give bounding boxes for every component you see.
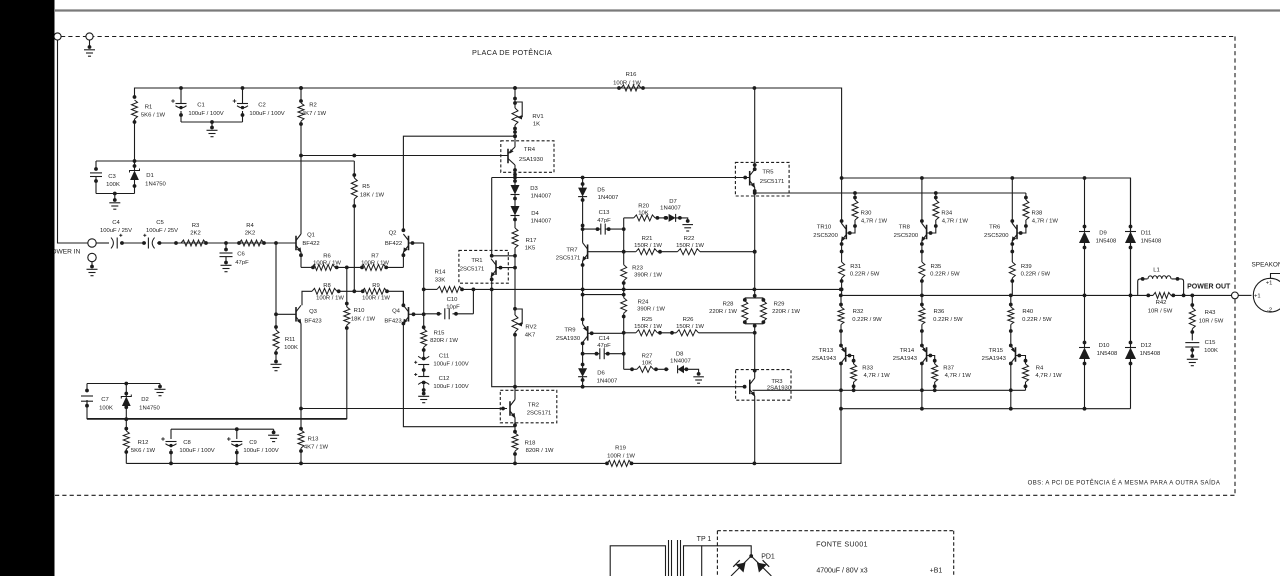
svg-text:R7: R7 — [371, 254, 379, 260]
svg-text:220R / 1W: 220R / 1W — [772, 309, 800, 315]
resistor R17 — [512, 228, 536, 256]
svg-text:4K7: 4K7 — [525, 333, 535, 339]
svg-text:C9: C9 — [249, 440, 257, 446]
svg-text:100K: 100K — [284, 345, 298, 351]
svg-text:2K2: 2K2 — [245, 230, 255, 236]
resistor R18 — [512, 433, 554, 463]
svg-text:47pF: 47pF — [597, 343, 611, 349]
svg-text:2SC5200: 2SC5200 — [984, 233, 1009, 239]
svg-text:1N5408: 1N5408 — [1140, 351, 1161, 357]
svg-text:R11: R11 — [285, 337, 295, 343]
trimpot RV1 — [512, 86, 544, 136]
wire R13 node to TR2 base — [301, 407, 507, 411]
svg-text:R12: R12 — [138, 440, 149, 446]
svg-text:2K2: 2K2 — [190, 230, 200, 236]
svg-text:100R / 1W: 100R / 1W — [316, 296, 344, 302]
svg-text:R34: R34 — [941, 211, 953, 217]
svg-text:2SA1943: 2SA1943 — [812, 356, 837, 362]
svg-text:TR1: TR1 — [471, 258, 482, 264]
svg-text:4,7R / 1W: 4,7R / 1W — [1035, 373, 1062, 379]
svg-text:100uF / 25V: 100uF / 25V — [146, 228, 178, 234]
ground after D7 — [682, 225, 693, 231]
svg-text:TR15: TR15 — [989, 348, 1004, 354]
capacitor C4 — [100, 220, 132, 249]
resistor R23 — [621, 252, 663, 298]
svg-text:1K5: 1K5 — [525, 246, 536, 252]
black sidebar — [0, 0, 55, 576]
svg-text:C1: C1 — [197, 103, 205, 109]
terminal POWER IN ground — [88, 253, 96, 261]
svg-text:100K: 100K — [99, 406, 113, 412]
resistor R13 — [298, 407, 329, 464]
svg-text:100R / 1W: 100R / 1W — [361, 261, 389, 267]
svg-text:0.22R / 5W: 0.22R / 5W — [1022, 317, 1052, 323]
svg-text:2SA1930: 2SA1930 — [556, 336, 581, 342]
speaker connector SPEAKON — [1252, 262, 1280, 314]
svg-text:D6: D6 — [597, 371, 605, 377]
svg-text:100R / 1W: 100R / 1W — [313, 261, 341, 267]
svg-text:TP 1: TP 1 — [697, 536, 712, 543]
svg-text:D12: D12 — [1141, 343, 1152, 349]
svg-text:Q4: Q4 — [392, 309, 401, 315]
wire +V collector rail right — [840, 176, 1131, 295]
resistor R3 — [181, 223, 206, 246]
svg-text:18K / 1W: 18K / 1W — [360, 193, 385, 199]
svg-text:SPEAKON: SPEAKON — [1252, 262, 1280, 269]
svg-text:100uF / 100V: 100uF / 100V — [188, 111, 223, 117]
svg-text:1N5408: 1N5408 — [1096, 239, 1117, 245]
label POWER IN — [47, 249, 81, 256]
diode D5 — [578, 178, 618, 230]
resistor R2 — [298, 86, 327, 155]
svg-text:4,7R / 1W: 4,7R / 1W — [863, 373, 890, 379]
svg-text:R40: R40 — [1022, 309, 1034, 315]
resistor R4 — [1016, 354, 1063, 391]
diode D7 — [660, 199, 689, 223]
transistor Q3 — [296, 305, 322, 408]
resistor R15 — [421, 329, 459, 352]
svg-text:1N4007: 1N4007 — [597, 379, 618, 385]
svg-text:1N4750: 1N4750 — [145, 182, 166, 188]
svg-text:PD1: PD1 — [761, 554, 775, 561]
resistor R7 — [361, 254, 389, 271]
svg-text:820R / 1W: 820R / 1W — [526, 448, 554, 454]
svg-text:+1: +1 — [1266, 281, 1273, 287]
svg-text:4,7R / 1W: 4,7R / 1W — [861, 219, 888, 225]
diode D12 — [1125, 295, 1161, 408]
svg-text:2SA1943: 2SA1943 — [893, 356, 918, 362]
svg-text:150R / 1W: 150R / 1W — [676, 243, 704, 249]
svg-text:R25: R25 — [642, 317, 654, 323]
ground at C7 D2 node — [155, 384, 166, 396]
svg-text:D10: D10 — [1099, 343, 1111, 349]
svg-text:C12: C12 — [439, 376, 450, 382]
svg-text:10K: 10K — [642, 360, 653, 366]
svg-text:100uF / 100V: 100uF / 100V — [433, 384, 468, 390]
wire mid rail — [424, 288, 843, 292]
capacitor C2 — [233, 88, 285, 122]
wire TR7 base line — [622, 193, 757, 296]
ground under C12 — [418, 396, 429, 402]
resistor R34 — [927, 193, 969, 235]
label POWER OUT — [1187, 283, 1231, 290]
svg-text:47pF: 47pF — [597, 218, 611, 224]
svg-text:390R / 1W: 390R / 1W — [634, 273, 662, 279]
transformer TP1 — [610, 536, 711, 576]
wire TR4 node rail to TR5 base — [492, 176, 750, 256]
resistor R39 — [1009, 262, 1050, 295]
svg-text:R42: R42 — [1156, 300, 1167, 306]
ground under C15 — [1187, 359, 1198, 365]
svg-text:Q2: Q2 — [389, 231, 397, 237]
transistor TR10 — [813, 178, 846, 262]
svg-text:R39: R39 — [1021, 264, 1032, 270]
svg-text:100K: 100K — [106, 182, 120, 188]
transistor TR1 — [459, 250, 517, 289]
wire Q4 emitter to TR2 emitter — [403, 324, 515, 427]
svg-text:100uF / 100V: 100uF / 100V — [243, 448, 278, 454]
resistor R6 — [312, 254, 341, 271]
transistor Q2 — [385, 134, 517, 267]
ground after D8 — [693, 377, 704, 383]
svg-text:R37: R37 — [943, 366, 954, 372]
svg-text:R32: R32 — [853, 309, 864, 315]
svg-text:R10: R10 — [354, 308, 366, 314]
resistor R37 — [927, 354, 972, 391]
resistor R35 — [919, 262, 960, 295]
svg-text:L1: L1 — [1153, 268, 1160, 274]
svg-text:RV2: RV2 — [525, 325, 536, 331]
svg-text:D9: D9 — [1099, 231, 1107, 237]
resistor R24 — [621, 298, 666, 333]
svg-text:R38: R38 — [1031, 211, 1043, 217]
resistor R20 — [624, 204, 668, 221]
svg-text:D11: D11 — [1141, 231, 1151, 237]
resistor R11 — [273, 243, 298, 363]
resistor R4 — [239, 223, 264, 246]
ground under R11 — [271, 364, 282, 370]
wire negative feed rail — [87, 417, 347, 421]
svg-text:1N5408: 1N5408 — [1097, 351, 1118, 357]
svg-text:RV1: RV1 — [532, 114, 543, 120]
zener diode D1 — [130, 161, 167, 194]
ground under terminal T2 — [84, 40, 95, 56]
transistor TR3 — [736, 369, 792, 464]
svg-text:R33: R33 — [862, 366, 874, 372]
svg-text:100uF / 100V: 100uF / 100V — [433, 362, 468, 368]
svg-text:D7: D7 — [669, 199, 677, 205]
wire Q2 base to Q4 base column — [422, 243, 426, 329]
zener diode D2 — [121, 384, 160, 420]
transistor TR7 — [556, 229, 624, 289]
svg-text:100R / 1W: 100R / 1W — [613, 81, 641, 87]
svg-text:TR8: TR8 — [899, 225, 911, 231]
svg-text:4,7R / 1W: 4,7R / 1W — [1032, 219, 1059, 225]
wire lower driver bias rail — [752, 388, 1025, 392]
capacitor C9 — [227, 429, 279, 463]
svg-text:BF422: BF422 — [302, 241, 319, 247]
transistor TR4 — [501, 130, 554, 177]
resistor R33 — [846, 354, 890, 391]
capacitor C3 — [90, 161, 120, 194]
capacitor C1 — [171, 88, 224, 122]
ground under C3 D1 — [109, 203, 120, 209]
resistor R25 — [634, 317, 662, 336]
svg-text:1N4007: 1N4007 — [660, 206, 681, 212]
svg-text:D5: D5 — [597, 188, 605, 194]
svg-text:10R / 5W: 10R / 5W — [1199, 319, 1224, 325]
svg-text:D2: D2 — [141, 397, 149, 403]
svg-text:100uF / 100V: 100uF / 100V — [179, 448, 214, 454]
svg-text:R43: R43 — [1205, 310, 1217, 316]
dashed enclosure PLACA DE POTENCIA — [55, 37, 1235, 496]
svg-text:Q3: Q3 — [309, 309, 318, 315]
resistor R14 — [435, 270, 462, 293]
svg-text:R17: R17 — [526, 238, 537, 244]
wire Q1 Q2 emitter line — [301, 266, 403, 270]
capacitor C11 — [414, 347, 469, 372]
transistor TR8 — [894, 178, 927, 262]
svg-text:C3: C3 — [108, 174, 116, 180]
transistor TR15 — [982, 344, 1016, 391]
capacitor C15 — [1185, 340, 1218, 358]
resistor R19 — [607, 446, 635, 467]
diode D8 — [670, 352, 700, 376]
svg-text:0.22R / 5W: 0.22R / 5W — [933, 317, 963, 323]
diode D9 — [1079, 178, 1117, 295]
svg-text:4,7R / 1W: 4,7R / 1W — [942, 219, 969, 225]
ground over C8 C9 — [268, 435, 279, 441]
transistor Q4 — [384, 291, 423, 325]
resistor R42 — [1148, 292, 1173, 314]
label PLACA DE POTENCIA — [472, 48, 552, 57]
svg-text:150R / 1W: 150R / 1W — [634, 324, 662, 330]
svg-text:C5: C5 — [156, 220, 164, 226]
wire Q1 collector node to TR4 base — [299, 154, 508, 158]
svg-text:TR4: TR4 — [524, 147, 536, 153]
ground under C6 — [221, 265, 232, 271]
capacitor C12 — [414, 371, 469, 395]
svg-text:TR3: TR3 — [771, 379, 783, 385]
resistor R12 — [123, 419, 155, 463]
svg-text:C2: C2 — [258, 103, 266, 109]
wire TR7 emitter to R24 link — [581, 289, 626, 319]
wire C1 C2 common to ground — [181, 120, 243, 129]
svg-text:0.22R / 9W: 0.22R / 9W — [852, 317, 882, 323]
wire TR13 collector to negative rail — [839, 388, 843, 408]
inductor L1 — [1138, 268, 1184, 296]
svg-text:R29: R29 — [774, 302, 785, 308]
transistor TR14 — [893, 344, 927, 391]
svg-text:10K: 10K — [638, 211, 649, 217]
svg-text:2SC5200: 2SC5200 — [813, 233, 838, 239]
transistor Q1 — [296, 156, 320, 268]
svg-text:0.22R / 5W: 0.22R / 5W — [1021, 272, 1051, 278]
svg-text:10R / 5W: 10R / 5W — [1148, 309, 1173, 315]
diode D4 — [511, 206, 552, 228]
resistor R32 — [838, 295, 882, 344]
resistor R27 — [624, 353, 669, 372]
svg-text:POWER OUT: POWER OUT — [1187, 283, 1231, 290]
terminal POWER OUT — [1232, 292, 1239, 299]
svg-text:4700uF / 80V x3: 4700uF / 80V x3 — [816, 568, 867, 575]
terminal T1 top-left — [54, 33, 61, 40]
svg-text:R19: R19 — [615, 446, 626, 452]
svg-text:BF423: BF423 — [304, 319, 322, 325]
svg-text:150R / 1W: 150R / 1W — [634, 243, 662, 249]
svg-text:D1: D1 — [146, 173, 154, 179]
wire output bus — [839, 294, 1231, 298]
resistor R28 — [709, 294, 763, 324]
svg-text:D3: D3 — [530, 186, 538, 192]
svg-text:100K: 100K — [1204, 348, 1218, 354]
svg-text:TR5: TR5 — [762, 170, 774, 176]
svg-text:5K6 / 1W: 5K6 / 1W — [141, 113, 166, 119]
ground at POWER IN — [87, 262, 98, 276]
svg-text:2SC5171: 2SC5171 — [527, 411, 552, 417]
svg-text:2SC5200: 2SC5200 — [894, 233, 919, 239]
svg-text:C4: C4 — [112, 220, 120, 226]
resistor R5 — [351, 161, 384, 208]
bridge rectifier PD1 — [702, 546, 775, 576]
svg-text:1N4007: 1N4007 — [598, 195, 619, 201]
svg-text:390R / 1W: 390R / 1W — [637, 307, 665, 313]
svg-text:R15: R15 — [434, 331, 446, 337]
svg-text:R30: R30 — [861, 211, 873, 217]
capacitor C7 — [81, 382, 160, 420]
svg-text:33K: 33K — [435, 278, 446, 284]
trimpot RV2 — [512, 289, 537, 386]
resistor R9 — [362, 283, 390, 302]
wire from terminal T1 down to power input — [58, 40, 89, 243]
svg-text:100R / 1W: 100R / 1W — [362, 296, 390, 302]
wire zener bias rail — [96, 159, 354, 163]
transistor TR5 — [735, 88, 789, 196]
svg-text:R9: R9 — [372, 283, 380, 289]
svg-text:+1: +1 — [1254, 293, 1261, 299]
svg-text:D8: D8 — [676, 352, 684, 358]
wire bottom signal bus — [126, 409, 841, 466]
svg-text:OBS: A PCI DE POTÊNCIA É A MES: OBS: A PCI DE POTÊNCIA É A MESMA PARA A … — [1028, 479, 1221, 487]
svg-text:C8: C8 — [183, 440, 191, 446]
svg-text:2SA1930: 2SA1930 — [519, 157, 544, 163]
wire negative collector rail — [839, 388, 1130, 410]
svg-text:TR2: TR2 — [528, 403, 539, 409]
svg-text:R36: R36 — [933, 309, 945, 315]
wire input signal line — [96, 241, 296, 245]
resistor R29 — [743, 298, 800, 371]
svg-text:R26: R26 — [683, 317, 695, 323]
transistor TR6 — [984, 178, 1017, 262]
svg-text:4,7R / 1W: 4,7R / 1W — [945, 373, 972, 379]
svg-text:TR6: TR6 — [989, 225, 1001, 231]
svg-text:1N4007: 1N4007 — [531, 219, 552, 225]
svg-text:R28: R28 — [723, 302, 735, 308]
capacitor C10 — [424, 289, 474, 319]
svg-text:R6: R6 — [323, 254, 331, 260]
capacitor C14 — [581, 333, 626, 370]
wire lower bias rail — [492, 289, 747, 388]
svg-text:2SA1943: 2SA1943 — [982, 356, 1007, 362]
diode D10 — [1079, 295, 1118, 408]
svg-text:+B1: +B1 — [930, 568, 943, 575]
svg-text:D4: D4 — [531, 211, 539, 217]
ground under C1 C2 — [207, 130, 218, 136]
svg-text:C15: C15 — [1205, 340, 1217, 346]
svg-text:1N5408: 1N5408 — [1141, 239, 1162, 245]
svg-text:R35: R35 — [930, 264, 942, 270]
svg-text:1N4007: 1N4007 — [531, 194, 552, 200]
svg-text:2SC5171: 2SC5171 — [760, 179, 785, 185]
svg-text:TR7: TR7 — [566, 248, 577, 254]
resistor R10 — [87, 267, 376, 418]
svg-text:R14: R14 — [435, 270, 447, 276]
svg-text:TR13: TR13 — [819, 348, 834, 354]
wire TR9 base R25 R26 line — [622, 331, 757, 335]
svg-text:1N4750: 1N4750 — [139, 406, 160, 412]
svg-text:4K7 / 1W: 4K7 / 1W — [304, 445, 329, 451]
svg-text:C7: C7 — [101, 397, 109, 403]
wire terminal to speaker — [1238, 294, 1251, 296]
svg-text:R22: R22 — [684, 236, 695, 242]
svg-text:Q1: Q1 — [307, 233, 315, 239]
svg-text:C11: C11 — [439, 354, 449, 360]
resistor R43 — [1189, 295, 1223, 340]
power supply box FONTE SU001 — [717, 531, 953, 576]
terminal T2 top — [86, 33, 93, 40]
resistor R8 — [312, 283, 344, 302]
svg-text:100R / 1W: 100R / 1W — [607, 454, 635, 460]
svg-text:150R / 1W: 150R / 1W — [676, 324, 704, 330]
wire TR5 emitter bias rail — [755, 191, 1026, 195]
svg-text:TR14: TR14 — [900, 348, 915, 354]
svg-text:R16: R16 — [626, 72, 638, 78]
capacitor C8 — [161, 429, 215, 463]
svg-text:C13: C13 — [599, 210, 611, 216]
wire +V top rail — [135, 86, 842, 178]
resistor R40 — [1008, 295, 1052, 344]
svg-text:2SC5171: 2SC5171 — [460, 267, 485, 273]
svg-text:4K7 / 1W: 4K7 / 1W — [302, 111, 327, 117]
svg-text:C14: C14 — [599, 336, 611, 342]
resistor R16 — [613, 72, 641, 91]
svg-text:BF422: BF422 — [385, 241, 402, 247]
svg-text:0.22R / 5W: 0.22R / 5W — [930, 272, 960, 278]
diode D6 — [578, 354, 617, 387]
svg-text:47pF: 47pF — [235, 260, 249, 266]
svg-text:R27: R27 — [642, 353, 653, 359]
svg-text:R1: R1 — [145, 105, 153, 111]
svg-text:R8: R8 — [323, 283, 331, 289]
svg-text:100uF / 25V: 100uF / 25V — [100, 228, 132, 234]
svg-text:18K / 1W: 18K / 1W — [351, 317, 376, 323]
svg-text:R31: R31 — [850, 264, 861, 270]
svg-text:2SC5171: 2SC5171 — [556, 256, 581, 262]
svg-text:R23: R23 — [632, 266, 644, 272]
transistor TR13 — [812, 344, 846, 391]
wire R5 column to feedback rail — [353, 199, 355, 291]
svg-text:R5: R5 — [362, 184, 370, 190]
capacitor C13 — [581, 210, 626, 235]
svg-text:R13: R13 — [308, 437, 320, 443]
svg-text:220R / 1W: 220R / 1W — [709, 309, 737, 315]
capacitor C6 — [220, 243, 250, 266]
diode D3 — [511, 178, 552, 207]
svg-text:820R / 1W: 820R / 1W — [430, 338, 458, 344]
wire C8 C9 top rail to ground — [171, 427, 276, 434]
capacitor C5 — [143, 220, 178, 249]
transistor TR9 — [556, 318, 624, 354]
